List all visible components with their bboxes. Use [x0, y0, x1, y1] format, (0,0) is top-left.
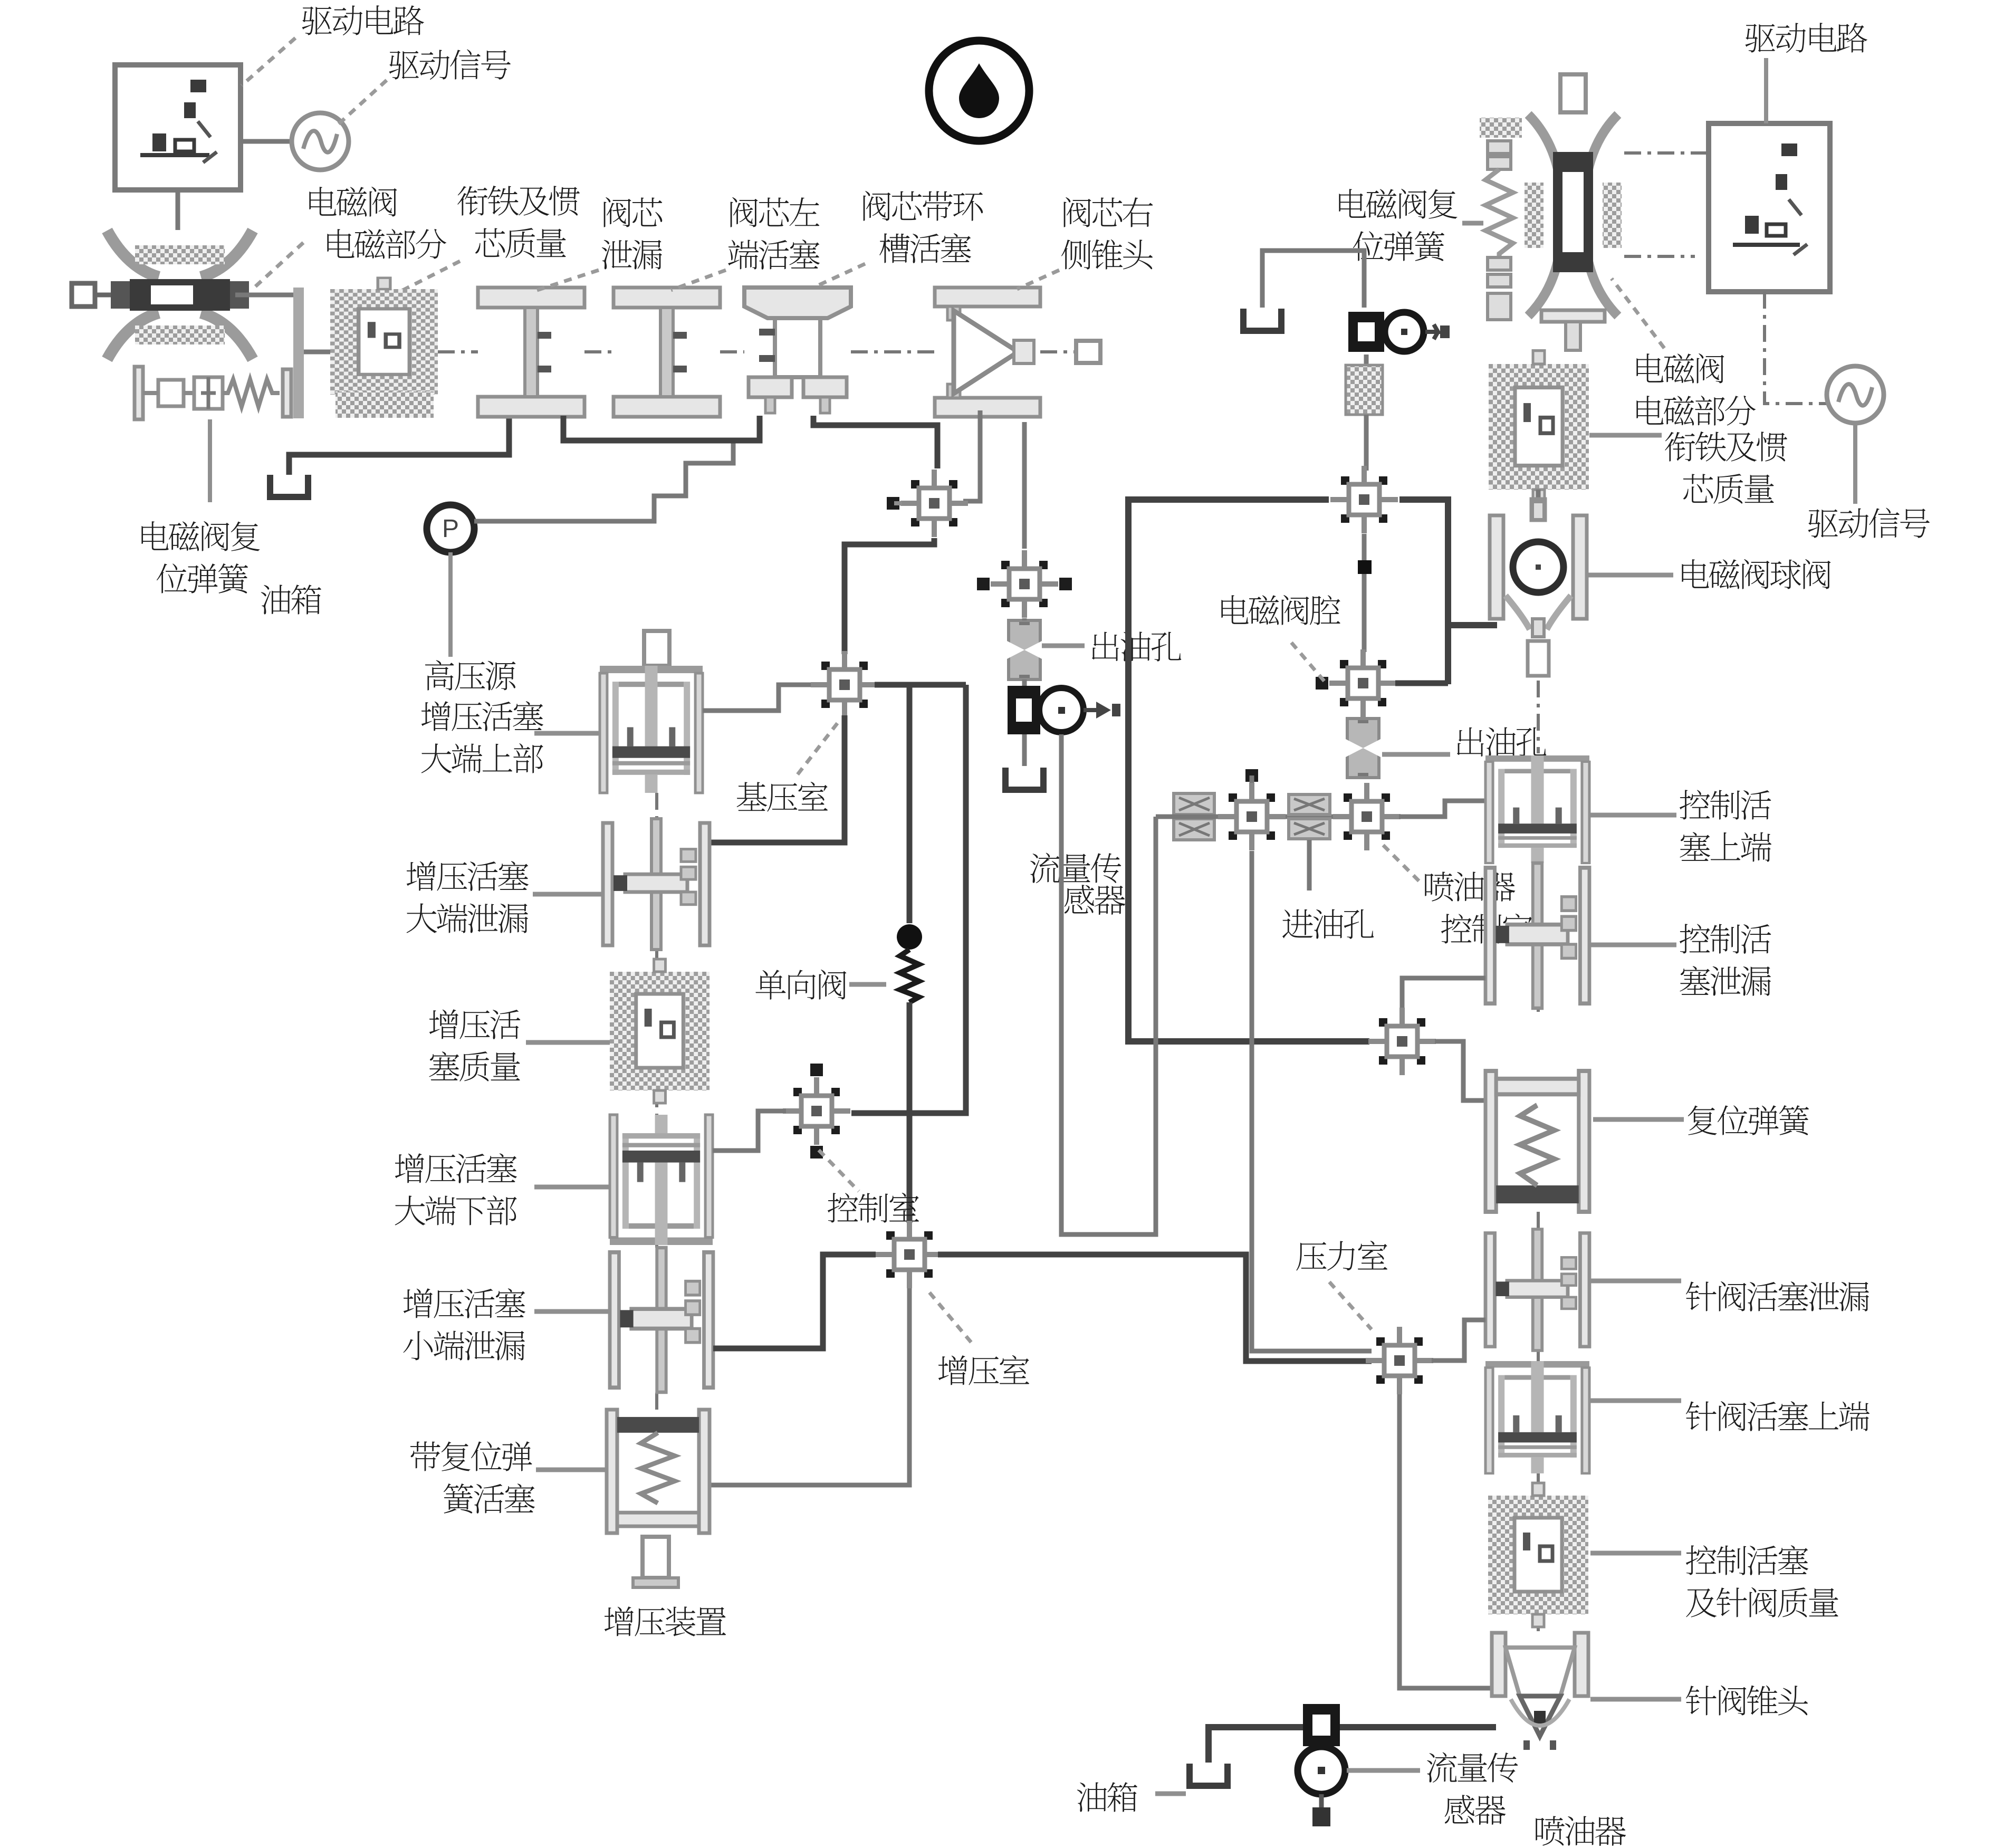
needle valve cone [1492, 1633, 1588, 1750]
label kongZhiHuoSai1a [1680, 790, 1771, 820]
cone valve to node M2 [1022, 422, 1027, 549]
node B to control piston [1399, 801, 1485, 817]
P-source supply wire [474, 441, 733, 521]
tank wire to 2/2 valve [1262, 251, 1364, 308]
tank L [270, 475, 308, 497]
injector column centerline [1537, 863, 1540, 865]
label quDongDianLuR [1745, 23, 1867, 53]
label zengYa4b [395, 1195, 517, 1225]
armature & core mass L [330, 278, 438, 406]
solenoid cavity node [1316, 649, 1397, 717]
label zengYa5b [403, 1331, 525, 1361]
solenoid electromagnet R [1525, 74, 1622, 350]
base chamber node [811, 651, 878, 719]
label xianTieR1 [1665, 432, 1787, 462]
pressure chamber down to nozzle [1399, 1394, 1493, 1688]
label quDongXinHaoL [389, 50, 511, 80]
signal source circle L [292, 113, 349, 170]
flow sensor (mid) [1008, 686, 1120, 734]
node to cyl2 [711, 715, 845, 842]
booster chamber node [876, 1221, 943, 1288]
label dianCiBuFenL [327, 229, 446, 259]
long right branch down [851, 685, 966, 1113]
orifice: out-oil hole (right) [1346, 719, 1381, 778]
node D to return spring cylinder [1435, 1041, 1485, 1100]
tank B [1190, 1764, 1228, 1786]
label zengYa3b [429, 1051, 520, 1081]
dash-dot ball valve to control piston [1537, 681, 1540, 753]
cylinder: small-end leakage [610, 1248, 713, 1392]
label kongZhiHuoSai2b [1680, 966, 1771, 995]
label zengYaZhuangZhi [605, 1606, 726, 1636]
wire control leak to node D [1402, 978, 1485, 1010]
cylinder: big-end leakage [603, 819, 710, 950]
label faXinYou1 [1064, 197, 1153, 227]
injection line (dark) [1340, 1724, 1496, 1730]
header right segment to ball valve [1399, 500, 1448, 684]
label dianCiFaQiang [1221, 595, 1340, 625]
node C to solenoid cavity node [1362, 534, 1367, 652]
dash-dot links to magnet [1624, 151, 1709, 155]
cylinder: needle piston upper end [1485, 1361, 1589, 1473]
booster column centerline [655, 793, 658, 819]
label youXiangL [261, 585, 321, 614]
flow sensor drop line [1059, 734, 1064, 828]
wire cyl1 to base chamber node [703, 685, 815, 711]
label fuWeiTanHuang [1688, 1105, 1809, 1135]
return spring + damper row L [135, 367, 143, 419]
wire box to magnet [176, 190, 180, 230]
link magnet to armature [235, 293, 298, 298]
wire cyl3 to control chamber [713, 1111, 786, 1151]
2/2 valve (top right) [1348, 312, 1450, 352]
booster chamber to spring piston [711, 1288, 909, 1485]
label jinYouKong [1282, 909, 1374, 939]
spool end block [1076, 341, 1100, 363]
label penYouQiKZS2 [1441, 914, 1532, 944]
label fuWeiTanHuangR2 [1353, 231, 1444, 261]
pressure chamber to needle upper [1432, 1320, 1485, 1361]
label zengYa2a [407, 861, 529, 891]
label kongZhiShi [828, 1193, 919, 1223]
label xianTieL2 [475, 228, 566, 258]
label liuLiangM2 [1065, 885, 1126, 915]
driver circuit box (left) [115, 65, 241, 190]
tank M [1005, 768, 1043, 790]
label chuYouKongM [1092, 631, 1181, 661]
ball valve [1490, 502, 1587, 637]
cylinder: control piston leakage [1485, 863, 1589, 1008]
label liuLiangM1 [1030, 853, 1121, 883]
pressure chamber node [1366, 1327, 1433, 1394]
chamber node M2 [977, 550, 1072, 618]
label quDongDianLuL [302, 5, 424, 35]
label yaLiShi [1296, 1241, 1387, 1271]
label danXiangFa [755, 970, 846, 1000]
tank R top [1243, 309, 1281, 331]
label liuLiangB1 [1427, 1753, 1518, 1783]
flow sensor (bottom) [1298, 1704, 1345, 1826]
chamber node M1 [887, 470, 968, 537]
label kongZhiJiZhen1 [1686, 1545, 1808, 1575]
label quDongXinHaoR [1808, 508, 1930, 539]
booster top stem [644, 631, 669, 666]
label faXinXieLou2 [602, 240, 662, 270]
damping orifice (hatched) [1346, 365, 1383, 415]
valve to damping orifice [1364, 355, 1369, 365]
spool drain header [563, 416, 760, 441]
spool4 bottom stub [963, 410, 980, 501]
inlet row link line [1156, 815, 1337, 819]
spool: left-end piston [613, 288, 720, 417]
mass: booster piston mass [610, 959, 710, 1103]
check valve [897, 924, 922, 1002]
inlet row: block a [1174, 793, 1214, 815]
label zengYa3a [429, 1009, 521, 1039]
label leader down [208, 419, 212, 502]
label xianTieR2 [1683, 474, 1774, 504]
driver circuit box (right) [1709, 123, 1830, 292]
label faXinDaiHuan1 [864, 191, 983, 221]
label fuWeiTanHuangL1 [141, 521, 260, 551]
label fuWeiTanHuangL2 [157, 563, 248, 593]
label liuLiangB2 [1445, 1795, 1506, 1825]
label jiYaShi [737, 782, 828, 812]
spool: valve leakage [478, 288, 584, 417]
cylinder: needle piston leakage [1485, 1229, 1589, 1351]
label zhenFaZhuiTou [1686, 1686, 1808, 1716]
orifice: out-oil hole (mid) [1007, 620, 1042, 679]
label leader: drive circuit L [242, 38, 295, 85]
label xianTieL1 [457, 186, 580, 216]
label fuWeiTanHuangR1 [1339, 189, 1457, 219]
drop icon [929, 41, 1029, 141]
main low-pressure header [1128, 500, 1369, 1041]
label kongZhiHuoSai1b [1680, 832, 1771, 861]
injector control chamber node B [1333, 783, 1401, 850]
injector supply loop [1061, 817, 1156, 1234]
label daiFuWei1 [410, 1441, 532, 1471]
inlet node A [1218, 769, 1286, 850]
label zengYa5a [404, 1288, 525, 1318]
spool3 to chamber wire [813, 416, 937, 468]
label faXinYou2 [1061, 240, 1153, 270]
booster chamber to injector [938, 1255, 1372, 1361]
label dianCiFaL [309, 187, 397, 217]
label zengYa1b [421, 743, 543, 773]
cylinder: big-end lower [610, 1115, 713, 1245]
label daiFuWei2 [444, 1483, 535, 1514]
cylinder: booster piston big-end upper [600, 666, 703, 793]
control chamber node [783, 1064, 850, 1158]
wire cyl4 to booster chamber [713, 1255, 876, 1348]
return spring R: hatch + spring [1480, 118, 1522, 138]
leader [395, 261, 460, 294]
label youXiangB [1077, 1782, 1137, 1812]
node D [1368, 1008, 1436, 1075]
cylinder: control piston upper end [1485, 755, 1589, 863]
check valve to booster chamber [907, 1002, 913, 1223]
label gaoYaYuan [425, 660, 516, 690]
label dianCiFaR2 [1636, 396, 1756, 426]
label zengYa1a [421, 701, 543, 731]
armature & core mass R [1489, 351, 1589, 503]
label dianCiFaQiuFa [1682, 559, 1830, 589]
inlet stub below block b [1307, 840, 1312, 891]
label penYouQiKZS1 [1425, 872, 1515, 902]
svg-text:P: P [442, 515, 459, 543]
label faXinZuo2 [728, 240, 820, 270]
spool: right cone [935, 288, 1040, 417]
label zhenFaXieLou [1686, 1281, 1869, 1311]
node M1 to base chamber [845, 538, 934, 654]
cylinder: return spring [1485, 1071, 1589, 1212]
flow sensor to tank M [1022, 734, 1027, 766]
spool: ring-groove piston [744, 288, 851, 413]
solenoid electromagnet L [72, 231, 253, 359]
armature bottom hatched bar [335, 391, 434, 418]
label penYouQiB [1536, 1816, 1626, 1846]
label kongZhiHuoSai2a [1680, 924, 1771, 954]
pedestal [643, 1537, 669, 1578]
wire box to signal circle [241, 139, 291, 144]
label zhenFaShangDuan [1686, 1401, 1870, 1431]
wire leak-spool to tank [289, 417, 509, 475]
signal source circle R [1827, 366, 1884, 423]
label kongZhiJiZhen2 [1686, 1587, 1838, 1617]
mass: control piston & needle mass [1488, 1483, 1588, 1627]
cylinder: piston with return spring [607, 1410, 710, 1533]
spool centerline [438, 350, 478, 353]
high pressure source P [427, 505, 474, 552]
label zengYa2b [407, 903, 528, 933]
check valve branch [907, 685, 913, 923]
label dianCiFaR1 [1636, 353, 1724, 384]
solenoid chamber node C [1330, 466, 1398, 533]
label chuYouKongR [1457, 727, 1546, 757]
label faXinDaiHuan2 [879, 233, 971, 263]
label leader: drive signal L [339, 80, 387, 124]
pressure chamber supply (from inlet node A) [1252, 851, 1372, 1351]
label zengYa4a [395, 1153, 517, 1183]
label faXinZuo1 [731, 197, 820, 227]
block b [1289, 794, 1330, 815]
label zengYaShi [938, 1355, 1029, 1385]
tank B wire [1209, 1727, 1303, 1763]
base chamber right header [875, 682, 966, 688]
label faXinXieLou1 [604, 197, 663, 227]
leader [254, 243, 303, 288]
armature to ball valve link [1536, 490, 1541, 509]
